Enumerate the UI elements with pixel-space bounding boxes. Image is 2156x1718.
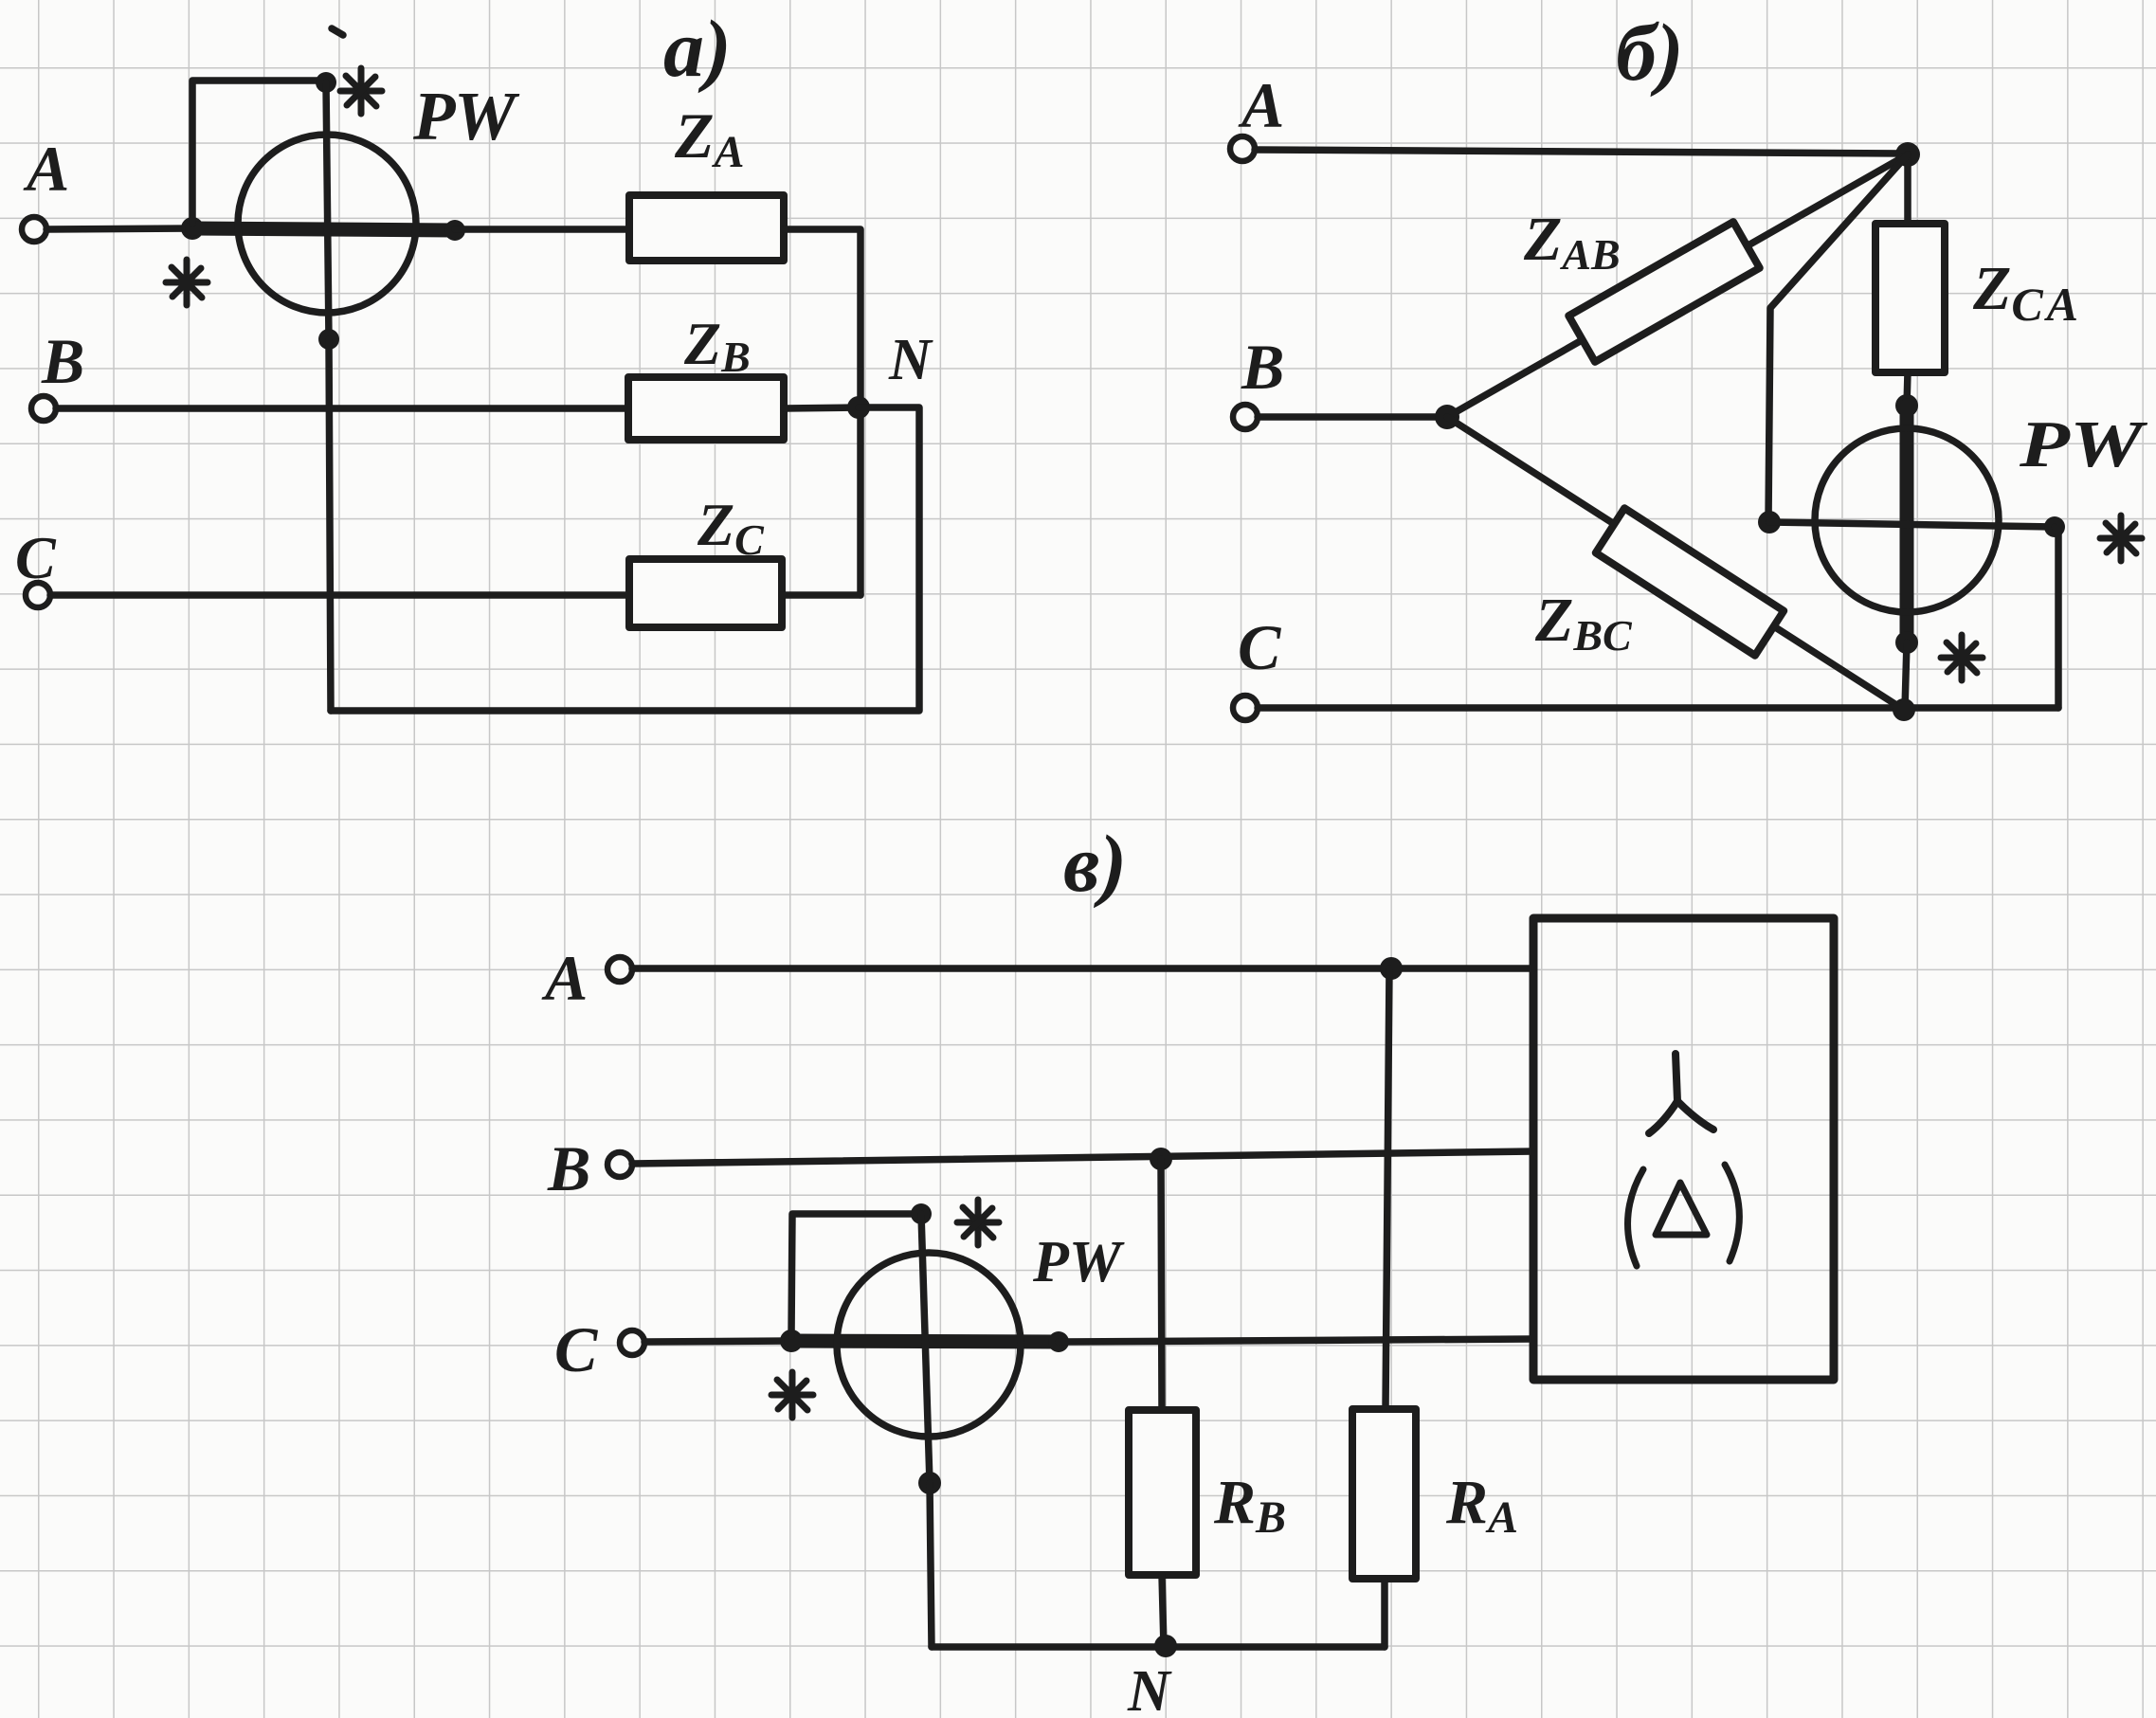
svg-text:A: A xyxy=(23,133,69,205)
wire to ZA xyxy=(455,226,629,233)
wire B to load box xyxy=(632,1151,1533,1164)
wattmeter PW current coil (thick wire) xyxy=(791,1341,1059,1342)
junction dot on A xyxy=(1380,957,1403,980)
resistor ZBC (rotated) xyxy=(1596,508,1784,655)
svg-text:N: N xyxy=(1127,1659,1172,1718)
terminal B xyxy=(607,1152,632,1177)
terminal C xyxy=(1233,696,1258,720)
voltage coil wire vertical xyxy=(326,82,329,339)
voltage coil wire horizontal xyxy=(1769,522,2055,527)
wire voltage return down xyxy=(930,1483,932,1647)
junction dot left of coil xyxy=(1758,511,1781,533)
junction dot xyxy=(1895,394,1918,417)
wire C to ZC xyxy=(50,591,629,599)
svg-text:C: C xyxy=(554,1313,598,1385)
resistor RB xyxy=(1129,1410,1196,1575)
junction dot on B xyxy=(1150,1148,1172,1170)
terminal C xyxy=(26,583,50,607)
wire C to wattmeter xyxy=(644,1341,791,1342)
svg-text:PW: PW xyxy=(2019,408,2148,481)
load box xyxy=(1533,918,1834,1380)
svg-text:в): в) xyxy=(1063,818,1127,909)
B vertex junction dot xyxy=(1435,405,1459,429)
wire A to load box xyxy=(632,965,1533,972)
resistor ZC xyxy=(629,559,782,627)
wattmeter PW current coil (thick wire) xyxy=(192,228,455,230)
wire junction B down to RB xyxy=(1161,1159,1162,1410)
svg-text:a): a) xyxy=(663,3,732,94)
polarity mark top xyxy=(957,1200,999,1245)
terminal C xyxy=(620,1330,644,1355)
wattmeter PW circle xyxy=(837,1253,1021,1437)
svg-text:PW: PW xyxy=(1032,1230,1125,1294)
wire RA to bottom xyxy=(1381,1579,1388,1647)
wire C continues to load box xyxy=(1059,1339,1533,1342)
wire A to vertex xyxy=(1255,150,1905,154)
stray pen mark xyxy=(332,28,343,35)
svg-text:A: A xyxy=(541,942,588,1014)
junction dot below circle xyxy=(918,1472,941,1494)
terminal B xyxy=(1233,405,1258,429)
wire to C line xyxy=(1905,642,1907,709)
diagonal wire vertex to B vertex xyxy=(1447,154,1908,417)
polarity mark top xyxy=(340,68,382,114)
polarity mark right xyxy=(2100,515,2142,561)
wire B to ZB xyxy=(56,405,628,412)
wattmeter PW circle xyxy=(1815,428,1999,612)
wire ZC to N column xyxy=(782,591,861,599)
svg-text:N: N xyxy=(888,328,933,392)
wire A to wattmeter xyxy=(46,228,192,229)
svg-text:B: B xyxy=(41,325,84,397)
svg-text:B: B xyxy=(1241,331,1284,403)
resistor ZB xyxy=(628,377,784,440)
op wattmeter PW circle xyxy=(238,135,416,313)
wire ZA to node N column xyxy=(784,229,861,595)
polarity mark bottom xyxy=(1941,635,1983,680)
wire RB to bottom xyxy=(1162,1575,1164,1647)
svg-text:PW: PW xyxy=(412,78,520,154)
star symbol in load xyxy=(1649,1054,1713,1133)
junction dot right of wattmeter xyxy=(444,220,465,241)
wire ZB to N xyxy=(784,407,859,408)
wattmeter PW current coil (thick vertical) xyxy=(1900,406,1914,642)
voltage coil wire vertical xyxy=(921,1214,930,1483)
junction dot below circle xyxy=(318,329,339,350)
junction dot xyxy=(181,217,204,240)
terminal A xyxy=(1230,136,1255,161)
junction dot on C line xyxy=(1893,698,1915,721)
junction dot xyxy=(911,1203,932,1224)
vertex junction dot xyxy=(1895,142,1920,167)
wire voltage return down xyxy=(329,339,331,711)
diagonal wire B vertex to C vertex xyxy=(1447,417,1904,710)
node N junction dot xyxy=(1154,1635,1177,1657)
delta symbol in load xyxy=(1628,1165,1740,1266)
wire voltage bracket xyxy=(791,1214,917,1336)
wire N to bottom loop back to wattmeter xyxy=(331,407,919,711)
resistor ZCA xyxy=(1875,224,1945,372)
svg-text:б): б) xyxy=(1616,7,1684,98)
junction dot xyxy=(1895,631,1918,654)
polarity mark bottom left xyxy=(771,1372,813,1418)
terminal A xyxy=(22,217,46,242)
resistor ZAB (rotated) xyxy=(1568,222,1759,362)
terminal A xyxy=(607,957,632,982)
junction dot top xyxy=(316,72,336,93)
junction dot right xyxy=(2044,516,2065,537)
wire right side down to C xyxy=(2055,527,2058,708)
wire ZCA to dot xyxy=(1907,372,1908,406)
polarity mark bottom xyxy=(166,260,208,305)
wire bottom neutral line xyxy=(932,1643,1385,1651)
svg-text:B: B xyxy=(547,1132,590,1204)
junction dot xyxy=(780,1329,803,1352)
svg-text:C: C xyxy=(1238,611,1281,683)
wire B to vertex xyxy=(1258,413,1447,421)
svg-text:A: A xyxy=(1238,69,1284,141)
node N junction dot xyxy=(847,396,870,419)
junction dot right of wattmeter xyxy=(1048,1331,1069,1352)
resistor ZA xyxy=(629,195,784,261)
terminal B xyxy=(31,396,56,421)
bent wire vertex to voltage coil xyxy=(1768,154,1908,520)
wire C line xyxy=(1258,704,2058,712)
wire voltage bracket xyxy=(192,81,322,224)
wire junction A down to RA xyxy=(1386,968,1389,1409)
resistor RA xyxy=(1352,1409,1416,1579)
wire vertex to ZCA xyxy=(1904,154,1911,224)
